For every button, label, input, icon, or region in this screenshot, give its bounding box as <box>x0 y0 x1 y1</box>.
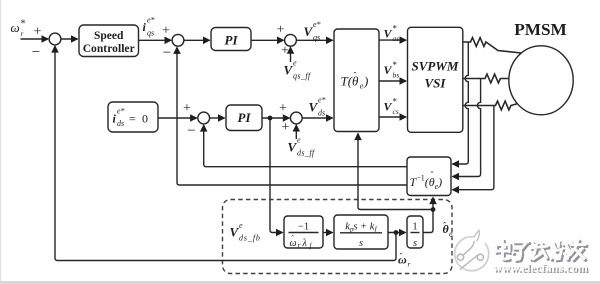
summing junction S1 <box>49 33 61 45</box>
wire T-inverse top output to S4 <box>204 125 407 167</box>
svg-text:−: − <box>187 123 195 139</box>
wire S5 to T block <box>302 117 332 119</box>
wire PI2 to S5 <box>262 117 289 119</box>
svg-text:V: V <box>288 140 298 155</box>
svg-text:e*: e* <box>117 107 125 116</box>
svg-text:s: s <box>359 238 363 249</box>
wire T out Vas <box>379 39 406 41</box>
svg-text:VSI: VSI <box>425 76 447 91</box>
junction dot PI2 output <box>268 116 273 121</box>
block T(theta) <box>334 29 379 132</box>
bottom page strip <box>0 281 600 284</box>
wire 1/s output up to T-inverse <box>423 198 433 233</box>
left page border <box>0 0 1 284</box>
svg-text:r: r <box>21 29 24 38</box>
svg-text:V: V <box>304 24 314 39</box>
block SVPWM VSI <box>408 27 463 132</box>
block Speed Controller <box>79 25 139 57</box>
wire tap phase c down to T-inverse <box>453 106 494 190</box>
summing junction S3 <box>285 34 297 46</box>
svg-text:ds_fb: ds_fb <box>239 234 261 243</box>
svg-text:qs: qs <box>313 33 320 42</box>
svg-text:*: * <box>393 60 398 70</box>
svg-text:bs: bs <box>393 71 400 80</box>
wire ids box to S4 <box>158 117 197 119</box>
svg-text:ˆ: ˆ <box>400 252 403 262</box>
wire T-inverse bottom output to S2 <box>177 47 407 185</box>
svg-text:e: e <box>449 230 453 239</box>
wire omega_r* input <box>21 38 49 40</box>
wire PI1 to S3 <box>251 39 284 41</box>
junction dot omega_r <box>394 230 399 235</box>
summing junction S5 <box>290 112 302 124</box>
svg-text:e: e <box>293 59 297 68</box>
svg-text:ds_ff: ds_ff <box>297 149 316 158</box>
wire S1 to Speed Controller <box>61 38 78 40</box>
svg-text:e: e <box>239 221 243 230</box>
svg-text:www.elecfans.com: www.elecfans.com <box>493 261 588 275</box>
wire block2 to block3 <box>388 232 406 234</box>
svg-text:+: + <box>34 25 42 40</box>
svg-text:r: r <box>298 241 301 249</box>
summing junction S4 <box>198 112 210 124</box>
summing junction S2 <box>172 34 184 46</box>
svg-text:Controller: Controller <box>83 43 135 55</box>
svg-text:ˆ: ˆ <box>291 234 294 243</box>
svg-text:V: V <box>230 225 240 240</box>
block 1/s <box>407 216 423 248</box>
svg-text:+: + <box>183 101 191 116</box>
svg-text:e: e <box>297 136 301 145</box>
svg-text:*: * <box>21 19 26 30</box>
svg-text:ˆ: ˆ <box>443 221 446 231</box>
block T-inverse <box>407 157 451 196</box>
svg-text:λ: λ <box>302 238 308 249</box>
svg-text:SVPWM: SVPWM <box>412 59 459 74</box>
svg-text:*: * <box>393 97 398 107</box>
wire theta branch to T block bottom <box>358 134 433 210</box>
junction dot theta <box>431 207 436 212</box>
svg-text:PMSM: PMSM <box>514 20 567 39</box>
svg-text:V: V <box>384 100 393 114</box>
wire phase a with resistor zigzag <box>463 38 521 53</box>
wire Vds_ff arrow into S5 <box>295 125 297 139</box>
fraction bar block2 <box>340 232 382 234</box>
svg-text:qs_ff: qs_ff <box>293 72 312 81</box>
svg-text:e*: e* <box>313 20 321 29</box>
svg-text:+: + <box>279 101 287 116</box>
svg-text:s: s <box>413 238 417 249</box>
wire S4 to PI2 <box>210 117 225 119</box>
svg-text:V: V <box>384 63 393 77</box>
wire S3 to T block <box>297 39 333 41</box>
svg-text:as: as <box>393 34 400 43</box>
wire phase b with resistor zigzag <box>463 74 509 83</box>
watermark logo connect lines <box>460 241 478 270</box>
svg-text:−: − <box>32 45 40 61</box>
wire S2 to PI1 <box>184 39 210 41</box>
wire T out Vcs <box>379 116 406 118</box>
svg-text:ω: ω <box>11 20 20 35</box>
block ids=0 <box>108 102 158 132</box>
fraction bar block1 <box>289 232 319 234</box>
svg-text:): ) <box>363 74 368 89</box>
watermark logo small circle right <box>477 254 483 260</box>
svg-text:Speed: Speed <box>94 30 124 42</box>
watermark <box>455 230 489 270</box>
svg-text:cs: cs <box>393 107 399 116</box>
svg-text:+: + <box>281 44 289 59</box>
wire Vds_fb from PI2 output down into estimator <box>270 118 283 233</box>
svg-text:ˆ: ˆ <box>431 170 434 180</box>
watermark logo small circle left <box>457 254 463 260</box>
dashed estimator box <box>223 200 453 274</box>
wire omega_r feedback to S1 <box>55 46 396 260</box>
wire phase c with resistor zigzag <box>463 101 518 110</box>
watermark logo tail <box>474 230 479 241</box>
svg-text:e*: e* <box>318 96 326 105</box>
block PI1 <box>211 28 251 51</box>
block PI estimator kp ki <box>334 215 388 249</box>
wire tap phase b down to T-inverse <box>453 79 481 177</box>
block -1/(omega lambda) <box>284 216 323 248</box>
svg-text:−1: −1 <box>298 222 309 233</box>
fraction bar block3 <box>411 232 420 234</box>
svg-text:PI: PI <box>238 110 252 125</box>
svg-text:ds: ds <box>117 119 124 128</box>
svg-text:ˆ: ˆ <box>354 71 357 81</box>
svg-text:PI: PI <box>225 33 239 48</box>
watermark logo big circle with top-right notch <box>455 237 489 271</box>
svg-text:V: V <box>384 27 393 41</box>
svg-text:qs: qs <box>147 29 154 38</box>
svg-text:0: 0 <box>142 112 148 126</box>
svg-text:−: − <box>163 45 171 61</box>
svg-text:+: + <box>162 24 170 39</box>
block PI2 <box>226 105 262 131</box>
svg-text:T−1(θe): T−1(θe) <box>410 174 443 192</box>
wire Vqs_ff arrow into S3 <box>290 47 292 62</box>
svg-text:+: + <box>282 120 290 135</box>
wire tap phase a down to T-inverse <box>453 42 469 164</box>
motor circle PMSM <box>509 46 573 115</box>
svg-text:1: 1 <box>412 222 417 233</box>
svg-text:r: r <box>408 260 411 269</box>
svg-text:*: * <box>393 24 398 34</box>
svg-text:V: V <box>309 100 319 115</box>
svg-text:ds: ds <box>318 109 325 118</box>
wire Speed Controller to S2 <box>139 39 172 41</box>
watermark chinese characters (approx strokes) <box>497 242 586 262</box>
svg-text:=: = <box>129 112 136 126</box>
svg-text:+: + <box>277 23 285 38</box>
wire T out Vbs <box>379 80 406 82</box>
svg-text:V: V <box>284 63 294 78</box>
wire block1 to block2 <box>323 232 333 234</box>
svg-text:e*: e* <box>147 16 155 25</box>
